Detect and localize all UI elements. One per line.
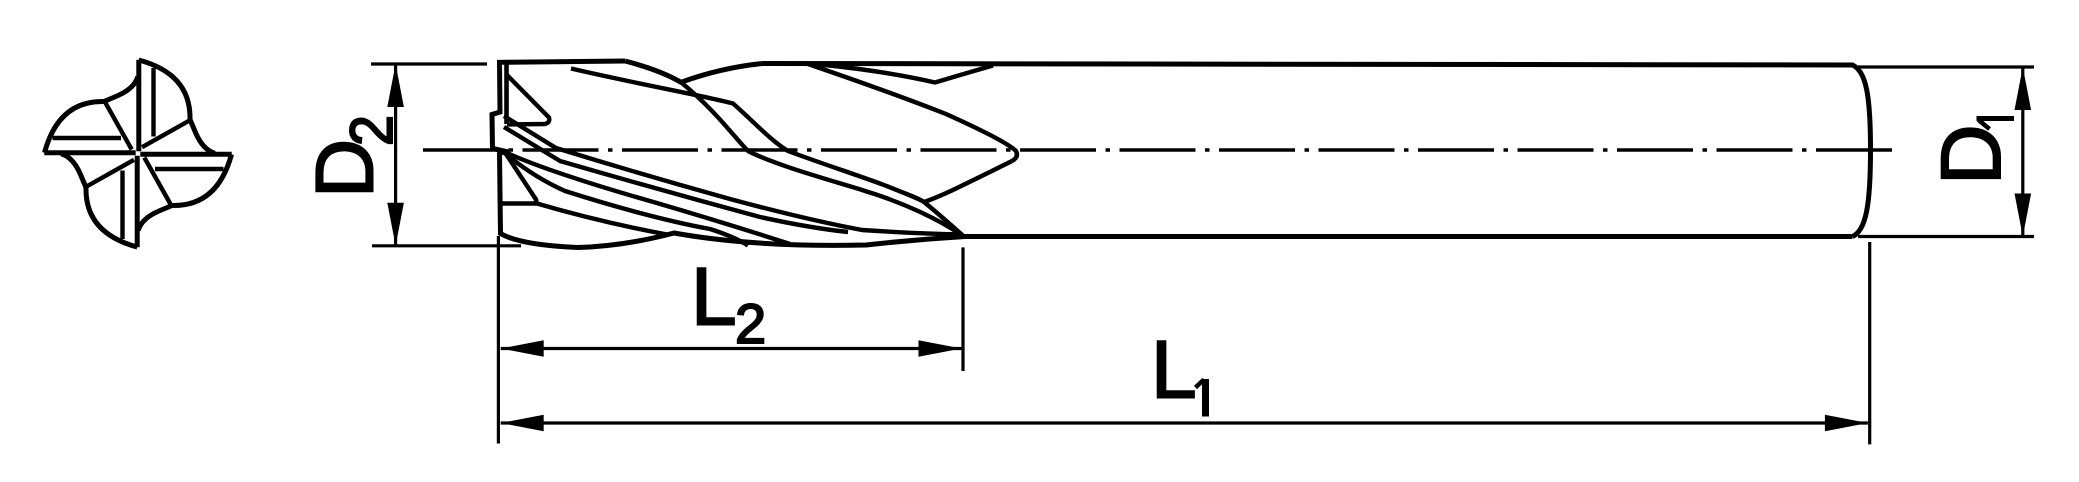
upper end-tooth face line <box>504 64 509 125</box>
end-view tooth: left wing <box>44 77 138 153</box>
end-view tooth: bottom wing <box>61 154 137 248</box>
L1 right extension line <box>1868 242 1871 444</box>
lower end-tooth pocket: steep diagonal <box>505 153 536 204</box>
flute fan line s3 <box>504 152 790 245</box>
upper end-tooth gash pocket <box>507 75 550 125</box>
D2 arrow down <box>387 203 404 246</box>
flute fan line s2 <box>504 127 848 232</box>
D2 top extension line <box>371 62 487 65</box>
cutter outline: top-left edge, left end, bottom with flute scallops <box>492 61 1853 248</box>
D1 top extension line <box>1858 65 2034 68</box>
svg-text:2: 2 <box>338 115 405 146</box>
cutter outline: top edge right of flute dip, shank rounded end <box>762 64 1871 237</box>
end view (pinwheel) of 4-flute end mill <box>44 60 231 247</box>
end-view tooth: right wing <box>138 154 232 230</box>
lower tooth cutting edge to bottom <box>537 204 667 235</box>
lower end-tooth ledge <box>502 201 537 205</box>
D2 arrow up <box>387 64 404 107</box>
D1 bottom extension line <box>1858 235 2034 238</box>
subscript 1 of D1 (rotated stem + flag) <box>1977 116 2015 121</box>
D1 dimension line <box>2021 67 2024 237</box>
D2 dimension line <box>394 64 397 246</box>
flute leaf top arc <box>805 63 1017 161</box>
flute dip left arm (top silhouette descending) <box>625 61 681 82</box>
L1 arrow left <box>501 415 544 432</box>
L2 arrow right <box>919 340 962 357</box>
centerline (dash-dot axis) <box>423 148 1900 151</box>
flute dip right arm (top silhouette ascending) <box>681 64 762 83</box>
helix line c2 <box>571 69 964 237</box>
L1 dimension line <box>501 421 1868 424</box>
L2 / L1 left extension line <box>497 236 500 444</box>
L2 dimension line <box>501 347 962 350</box>
L2 right extension line <box>961 247 964 371</box>
L2 arrow left <box>501 340 544 357</box>
helix line c1 steep descent from dip vertex <box>681 82 963 236</box>
svg-text:D: D <box>300 139 391 198</box>
svg-text:L: L <box>691 252 737 343</box>
flute leaf bottom arc <box>924 161 1012 202</box>
end-view tooth: top wing <box>139 60 215 154</box>
D1 arrow up <box>2015 67 2032 110</box>
svg-text:D: D <box>1924 124 2018 185</box>
svg-text:L: L <box>1151 325 1197 416</box>
flute fan line s1 <box>504 116 962 235</box>
D2 bottom extension line <box>372 244 521 247</box>
small V notch at top (flute runout) <box>820 65 993 83</box>
D1 arrow down <box>2015 194 2032 237</box>
subscript 1 of L1 (stem + flag) <box>1202 379 1209 417</box>
flute fan line s4 <box>504 153 748 246</box>
svg-text:2: 2 <box>735 292 766 355</box>
L1 arrow right <box>1825 415 1868 432</box>
